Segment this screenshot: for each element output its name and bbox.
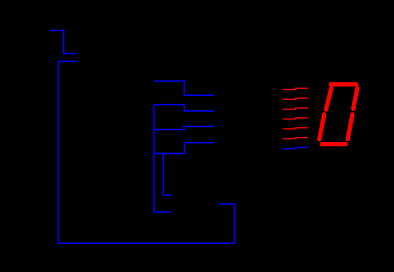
segment d (bottom) [322, 142, 346, 146]
wire: display pin e (high) [283, 128, 308, 129]
segment b (top-right) [353, 88, 357, 109]
segment a (top) [331, 82, 356, 86]
segment c (bottom-right) [348, 114, 353, 139]
segment e (bottom-left) [319, 114, 324, 139]
wire: bus tap to decoder input D2 [154, 126, 214, 129]
seven-segment display digit 0 [319, 84, 357, 144]
segment f (top-left) [326, 88, 331, 109]
wire: display pin b (high) [283, 98, 308, 99]
wire: display pin c (high) [283, 108, 308, 109]
wire: display pin g (low) [283, 147, 308, 148]
wire: display pin d (high) [283, 118, 308, 119]
wire: display pin f (high) [283, 138, 308, 139]
wire: gate output to decoder input D0 [154, 81, 214, 95]
wire: left vertical bus A down to lower gate pin [154, 105, 172, 212]
wire: top-left input stub to gate pin [50, 30, 76, 53]
wire: bus tap to decoder input D3 [154, 143, 214, 154]
wire: vertical bus B down to gate pin [163, 154, 172, 196]
wire: ground net (gate pin, left rail, bottom rail, up to display common) [58, 61, 234, 243]
wire: display pin a (high) [283, 88, 308, 89]
wire: bus to decoder input D1 [154, 105, 214, 111]
